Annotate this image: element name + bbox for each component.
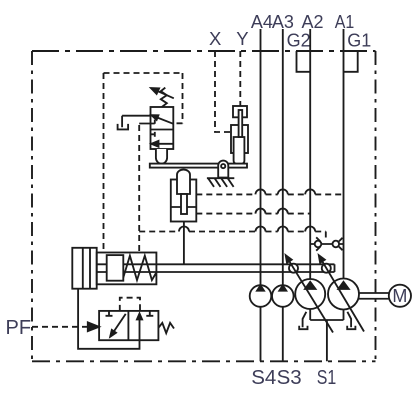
enclosure border bottom <box>32 360 376 362</box>
feedback piston cap <box>233 106 247 117</box>
ground baseline <box>207 177 234 179</box>
svg-text:A2: A2 <box>302 12 324 32</box>
svg-text:S1: S1 <box>317 366 337 389</box>
regulator valve top port tick <box>139 120 155 124</box>
wire A3 line <box>282 29 284 361</box>
electric motor M <box>389 285 411 307</box>
pump S4 <box>250 285 272 307</box>
svg-text:M: M <box>392 286 407 306</box>
lever bar <box>150 164 247 168</box>
pilot dashed loop around regulator valve <box>104 73 183 253</box>
wire cylinder output <box>183 222 185 265</box>
PF valve spring <box>158 323 174 333</box>
pivot mount <box>218 161 228 178</box>
regulator valve body U1 <box>151 107 174 149</box>
drain loop from servo to PF valve <box>78 289 139 349</box>
regulator valve stem with rounded foot <box>156 149 167 164</box>
shuttle check ball right <box>333 241 340 248</box>
svg-text:S3: S3 <box>277 366 302 389</box>
regulator valve top-cell arrow <box>158 118 174 124</box>
PF control valve body <box>99 311 158 340</box>
svg-text:G2: G2 <box>287 31 311 51</box>
pivot pin <box>221 164 225 168</box>
svg-text:X: X <box>209 28 221 49</box>
measuring cylinder plunger <box>177 170 190 194</box>
pump S3 <box>272 285 294 307</box>
spring on regulator valve <box>161 88 167 107</box>
svg-text:A1: A1 <box>335 12 355 32</box>
shuttle valve line <box>310 243 343 245</box>
PF valve right cell arrow <box>139 318 141 341</box>
tank symbol <box>118 124 129 129</box>
PF valve left port tick <box>106 311 113 316</box>
wire A2 line <box>309 29 311 320</box>
enclosure border top <box>32 50 376 52</box>
pilot line Y <box>239 51 241 106</box>
wire G2 stub <box>297 51 311 72</box>
servo body <box>97 253 157 285</box>
motor shaft <box>359 293 389 299</box>
variable displacement arrow pump A2 <box>289 261 333 332</box>
servo spring <box>123 256 156 280</box>
servo piston block <box>107 255 124 281</box>
PF supply dashed line <box>32 326 88 328</box>
PF valve right port tick <box>146 311 153 316</box>
measuring cylinder housing <box>171 180 197 222</box>
wire suction manifold S1 <box>310 320 343 361</box>
svg-text:S4: S4 <box>251 366 276 389</box>
pump A2 (variable) <box>295 279 325 309</box>
PF valve pilot loop <box>120 298 140 311</box>
PF valve left cell arrow <box>114 314 126 332</box>
servo piston big end <box>72 248 96 289</box>
svg-text:PF: PF <box>6 317 32 339</box>
enclosure border right <box>375 51 377 361</box>
bar link circle 1 <box>289 264 298 273</box>
case drain pump A1 <box>347 312 355 329</box>
pilot line X <box>215 51 231 132</box>
drain line from regulator valve <box>122 116 150 128</box>
adjustment arrow <box>158 91 174 98</box>
pilot dashed line 1 <box>196 193 343 195</box>
variable displacement arrow pump A1 <box>322 261 364 331</box>
case drain pump A2 <box>299 312 307 329</box>
shuttle check ball left <box>315 241 322 248</box>
feedback piston <box>234 137 245 164</box>
pilot dashed line 2 <box>196 213 310 215</box>
pump A1 (variable) <box>328 279 359 310</box>
regulator valve bottom arrow <box>151 141 158 147</box>
measuring cylinder rod <box>181 194 187 214</box>
svg-text:G1: G1 <box>347 31 371 51</box>
svg-text:A4: A4 <box>251 12 273 32</box>
svg-text:Y: Y <box>236 28 248 49</box>
feedback piston housing <box>231 125 248 153</box>
PF arrow <box>88 322 99 331</box>
wire A4 line <box>260 29 262 361</box>
pilot dashed line 3 <box>139 232 326 242</box>
pilot line from valve to servo top <box>138 125 140 253</box>
feedback bar (double line) <box>97 264 335 272</box>
wire G1 stub <box>344 51 358 72</box>
bar link circle 2 <box>322 264 331 273</box>
ground hatching <box>208 178 234 187</box>
feedback piston rod <box>239 110 243 137</box>
wire A1 line <box>343 29 345 320</box>
regulator valve mid port tick <box>151 132 155 137</box>
enclosure border left <box>31 51 33 361</box>
